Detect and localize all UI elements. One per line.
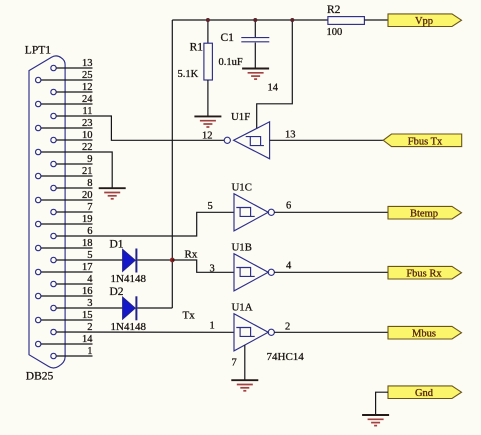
connector pin 14 [36,334,94,347]
svg-text:C1: C1 [221,32,235,44]
junction dot node pin14/rail [290,18,294,22]
wire pin5 to D1 anode [56,259,122,261]
connector pin 6 [51,226,93,239]
wire pin3 to D2 anode [56,307,122,309]
connector pin 13 [51,58,93,71]
wire: Rx node to U1B input [172,260,234,272]
resistor R2 [328,17,365,25]
svg-text:U1A: U1A [232,302,253,314]
svg-text:4: 4 [87,274,93,285]
connector pin 17 [36,262,93,275]
svg-text:15: 15 [82,310,93,321]
svg-text:20: 20 [82,190,93,201]
connector pins: circles, stubs, pin numbers [36,58,94,359]
svg-text:19: 19 [82,214,93,225]
svg-text:1N4148: 1N4148 [111,321,147,333]
svg-text:22: 22 [82,142,93,153]
svg-text:Tx: Tx [183,309,196,321]
svg-text:1: 1 [210,320,215,331]
connector pin 16 [36,286,93,299]
svg-text:100: 100 [327,27,343,38]
connector pin 10 [51,130,93,143]
wire: LPT pin 6 to U1C input [56,212,234,236]
svg-text:0.1uF: 0.1uF [219,57,243,68]
svg-text:Vpp: Vpp [415,16,433,27]
connector pin 5 [51,250,93,263]
wire R2 to Vpp [364,19,388,21]
power port flag Vpp [388,14,462,27]
wire: LPT pin 22 to ground [41,152,112,188]
svg-text:13: 13 [82,58,93,69]
wire: LPT pin 2 to U1A input [56,331,234,333]
op-amp U1B inverter [234,254,274,291]
svg-text:25: 25 [82,70,93,81]
port flag Fbus Tx (points left) [383,134,462,147]
connector pin 21 [36,166,93,179]
wire rail to R1 [207,20,209,43]
wire D2 cathode to bus [137,307,172,309]
wire U1B output to Fbus Rx flag [274,271,388,273]
svg-text:14: 14 [268,83,279,94]
svg-text:8: 8 [87,178,92,189]
svg-text:12: 12 [202,131,213,142]
wire D1 cathode to node Rx [137,259,172,261]
connector pin 4 [51,274,93,287]
ground on pin 22 [99,188,126,199]
svg-text:9: 9 [87,154,92,165]
svg-text:Rx: Rx [185,249,198,261]
svg-text:5.1K: 5.1K [178,69,199,80]
svg-text:Btemp: Btemp [410,209,438,220]
svg-text:6: 6 [87,226,92,237]
wire U1C output to Btemp flag [274,211,388,213]
svg-text:18: 18 [82,238,93,249]
svg-text:U1F: U1F [231,111,250,123]
svg-text:17: 17 [82,262,93,273]
connector pin 23 [36,118,93,131]
svg-text:14: 14 [82,334,93,345]
wire: top power rail from vertical bus to R2 [172,19,328,21]
svg-text:16: 16 [82,286,93,297]
ground under U1A [231,380,258,391]
svg-text:5: 5 [87,250,92,261]
connector pin 2 [51,322,93,335]
connector pin 7 [51,202,93,215]
svg-text:11: 11 [82,106,92,117]
connector pin 11 [51,106,93,119]
svg-text:7: 7 [87,202,92,213]
svg-text:DB25: DB25 [26,371,54,383]
port flag Fbus Rx [388,266,462,279]
svg-text:LPT1: LPT1 [25,45,51,57]
op-amp U1F inverter (mirrored, bubble left) [224,122,269,159]
connector pin 3 [51,298,93,311]
svg-text:6: 6 [286,200,291,211]
wire: U1A pin 7 to ground [244,345,246,380]
svg-text:Mbus: Mbus [412,329,436,340]
svg-text:1N4148: 1N4148 [111,273,147,285]
svg-text:24: 24 [82,94,93,105]
svg-text:3: 3 [210,264,215,275]
svg-text:R2: R2 [327,4,341,16]
svg-text:R1: R1 [190,42,204,54]
connector pin 9 [51,154,93,167]
wire C1 to ground [254,43,256,69]
ground under R1 [194,116,221,127]
svg-text:10: 10 [82,130,93,141]
wire: LPT pin 11 jog to U1F input [56,116,224,140]
connector pin 12 [51,82,93,95]
junction dot node C1/rail [253,18,257,22]
connector pin 19 [36,214,93,227]
wire U1A output to Mbus flag [274,331,388,333]
svg-text:2: 2 [285,321,290,332]
svg-text:Fbus Tx: Fbus Tx [408,136,443,147]
junction dot node R1/rail [206,18,210,22]
svg-text:Gnd: Gnd [415,388,434,399]
port flag Gnd [388,386,462,399]
port flag Btemp [388,206,462,219]
svg-text:U1C: U1C [232,182,252,194]
wire: pin 14 power branch [257,20,293,129]
svg-text:5: 5 [208,201,213,212]
svg-text:2: 2 [87,322,92,333]
svg-text:Fbus Rx: Fbus Rx [406,269,442,280]
svg-text:3: 3 [87,298,92,309]
svg-text:23: 23 [82,118,93,129]
svg-text:1: 1 [87,346,92,357]
svg-text:74HC14: 74HC14 [267,351,305,363]
svg-text:13: 13 [285,129,296,140]
svg-text:21: 21 [82,166,93,177]
svg-text:4: 4 [286,261,292,272]
connector pin 18 [36,238,93,251]
svg-text:U1B: U1B [232,242,252,254]
connector pin 8 [51,178,93,191]
ground under Gnd flag [362,415,389,426]
wire R1 to ground [207,80,209,116]
wire rail to C1 [254,20,256,37]
svg-text:12: 12 [82,82,93,93]
svg-text:7: 7 [232,358,237,369]
resistor R1 body [204,43,213,80]
op-amp U1C inverter [234,194,274,231]
wire U1F output to Fbus Tx flag [270,139,384,141]
connector pin 25 [36,70,93,83]
wire: vertical bus x=172 from rail down to D2 cathode [171,20,173,308]
connector pin 24 [36,94,94,107]
svg-text:D2: D2 [110,286,124,298]
port flag Mbus [388,326,462,339]
connector pin 15 [36,310,93,323]
connector pin 22 [36,142,93,155]
connector pin 1 [51,346,93,359]
junction dot Rx node [170,258,175,263]
svg-text:D1: D1 [110,238,124,250]
connector LPT1 DB25 body outline [29,56,65,368]
connector pin 20 [36,190,93,203]
wire Gnd flag to ground [376,392,388,415]
op-amp U1A inverter [234,314,274,351]
ground under C1 [242,69,269,80]
